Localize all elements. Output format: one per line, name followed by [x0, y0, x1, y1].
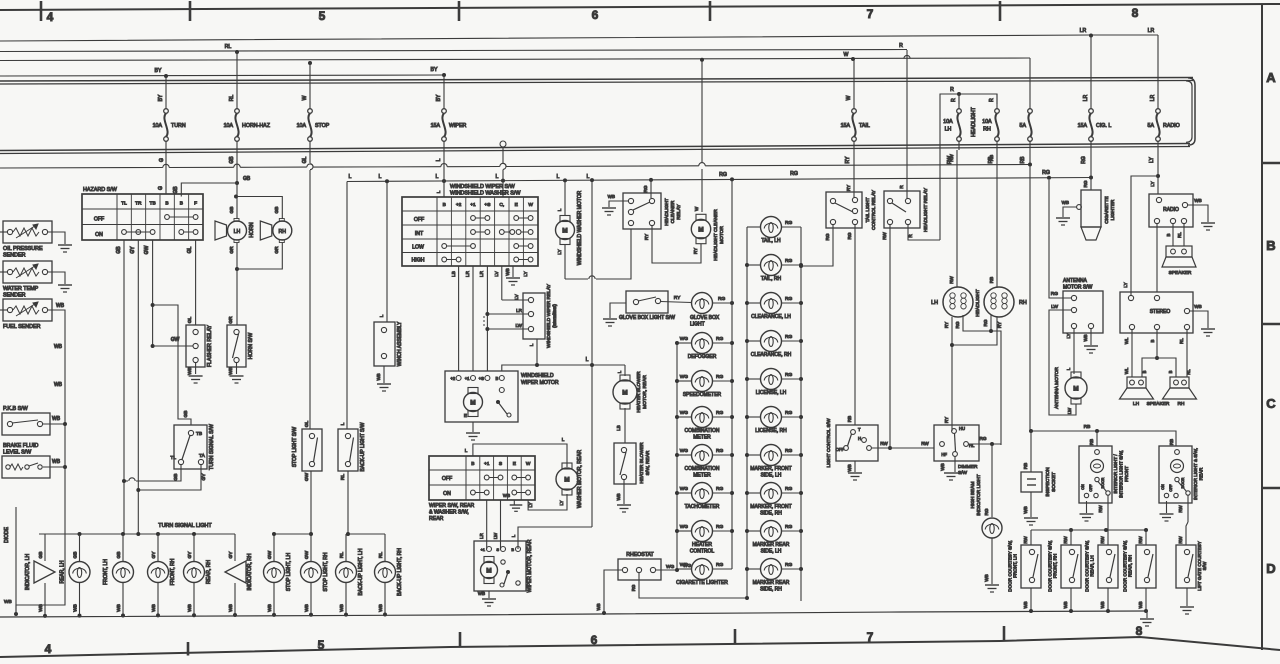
svg-text:GL: GL [187, 316, 193, 323]
svg-text:SIDE, LH: SIDE, LH [761, 473, 782, 479]
lamp MARKER REAR SIDE, LH [747, 521, 801, 555]
svg-text:M: M [698, 227, 703, 234]
svg-text:LR: LR [1148, 28, 1155, 34]
tail lamp rail left [745, 227, 749, 598]
svg-text:RY: RY [944, 322, 949, 328]
svg-text:WB: WB [376, 373, 381, 380]
svg-text:LR: LR [479, 270, 484, 277]
svg-text:STOP: STOP [315, 123, 330, 129]
heater blower switch rear [614, 408, 651, 484]
lamp rear LH [60, 534, 91, 618]
svg-text:B: B [511, 547, 514, 552]
meter lamp COMBINATION METER [677, 445, 732, 479]
svg-text:WINDSHIELD WASHER S/W: WINDSHIELD WASHER S/W [450, 191, 521, 197]
svg-text:RG: RG [1083, 180, 1088, 187]
svg-text:GL: GL [187, 246, 193, 253]
svg-text:M: M [562, 228, 567, 235]
svg-text:10A: 10A [297, 123, 307, 129]
svg-text:RW: RW [1138, 536, 1143, 544]
svg-text:WB: WB [1023, 506, 1028, 513]
svg-text:RY: RY [846, 185, 851, 191]
wire L-RG distribution line [347, 170, 1093, 183]
fuse 15A WIPER [431, 75, 467, 150]
fuse 10A TURN [153, 76, 186, 150]
svg-text:M: M [486, 568, 491, 575]
svg-text:+1: +1 [470, 202, 476, 208]
svg-text:GB: GB [274, 207, 280, 214]
svg-text:WG: WG [680, 410, 689, 416]
svg-text:RH: RH [983, 127, 991, 133]
svg-text:LY: LY [523, 271, 528, 276]
indicator lamp turn LH [25, 534, 55, 618]
horn switch [227, 316, 254, 367]
svg-text:LY: LY [1066, 333, 1071, 338]
svg-text:GW: GW [144, 245, 150, 254]
hazard output wires GB GY GW GL [116, 240, 196, 533]
wire RB distribution to interior lights [1029, 424, 1176, 446]
svg-text:OFF: OFF [414, 217, 424, 223]
bottom WB bus [0, 611, 1146, 617]
back-up light RH [375, 534, 404, 616]
svg-text:HEATER BLOWER: HEATER BLOWER [639, 442, 645, 484]
svg-text:GY: GY [201, 473, 207, 481]
svg-text:LW: LW [493, 532, 498, 539]
svg-text:+1: +1 [465, 376, 470, 381]
frame right border [1262, 5, 1280, 650]
windshield wiper relay [514, 283, 557, 348]
svg-text:RL: RL [229, 95, 235, 102]
svg-text:WG: WG [683, 563, 692, 569]
svg-text:OFF: OFF [94, 217, 104, 223]
svg-text:RY: RY [944, 417, 949, 423]
svg-text:SIDE, LH: SIDE, LH [761, 549, 782, 555]
svg-text:SIDE, RH: SIDE, RH [760, 587, 782, 593]
svg-text:INSPECTION: INSPECTION [1045, 467, 1051, 497]
svg-text:WB: WB [187, 367, 193, 375]
svg-text:15A: 15A [1078, 123, 1088, 129]
svg-text:LR: LR [465, 270, 470, 277]
svg-text:R: R [989, 98, 995, 102]
svg-text:RG: RG [785, 410, 792, 416]
wire GW to turn signal switch TB [151, 303, 191, 425]
svg-text:INTERIOR LIGHT S/W,: INTERIOR LIGHT S/W, [1119, 450, 1124, 498]
wire RB distribution line [0, 163, 1032, 169]
turn signal light bus [39, 523, 235, 536]
svg-text:WB: WB [187, 604, 193, 612]
svg-text:INDICATOR, LH: INDICATOR, LH [25, 554, 31, 591]
svg-text:WB: WB [54, 344, 63, 350]
svg-text:GY: GY [151, 551, 157, 559]
meter lamp CIGARETTE LIGHTER [676, 559, 732, 587]
tail lamp rail right RG [799, 227, 803, 601]
heater blower switch ground [616, 480, 631, 512]
svg-text:ANTENNA: ANTENNA [1063, 278, 1088, 284]
stop light RH [301, 534, 330, 617]
svg-text:WINCH ASSEMBLY: WINCH ASSEMBLY [397, 321, 403, 366]
svg-text:RB: RB [847, 416, 852, 422]
lamp MARKER REAR SIDE, RH [747, 559, 801, 593]
svg-text:W: W [528, 202, 533, 208]
svg-text:W: W [302, 95, 308, 100]
svg-text:S/W, REAR: S/W, REAR [645, 450, 651, 475]
svg-text:TAIL, LH: TAIL, LH [761, 238, 781, 244]
svg-text:COMBINATION: COMBINATION [685, 466, 720, 472]
fuse 5A RADIO [1148, 35, 1180, 176]
wire LY washer rear to table [528, 494, 567, 510]
svg-text:LH: LH [1133, 401, 1140, 407]
stop light switch [292, 150, 322, 481]
svg-text:ON: ON [1161, 484, 1165, 490]
svg-text:WB: WB [1062, 200, 1069, 205]
svg-text:RW: RW [1098, 505, 1103, 513]
svg-text:RADIO: RADIO [1163, 207, 1179, 213]
svg-text:RY: RY [845, 156, 851, 164]
ground for water temp sender [48, 272, 72, 292]
svg-text:TL: TL [170, 455, 176, 461]
svg-text:10A: 10A [153, 123, 163, 129]
wire RY headlights to dimmer [944, 317, 1002, 431]
svg-text:WG: WG [680, 448, 689, 454]
ground for oil pressure sender [48, 232, 72, 252]
lamp MARKER, FRONT SIDE, LH [747, 445, 801, 479]
svg-text:WIPER: WIPER [449, 123, 467, 129]
wire RW headlight relay to light control [882, 225, 892, 450]
bus line 2 net R [0, 43, 907, 54]
wire GB feed to hazard and horns [173, 150, 251, 197]
svg-text:RG: RG [716, 336, 723, 342]
lamp CLEARANCE, LH [747, 293, 801, 321]
cigarette lighter ground [1056, 200, 1077, 225]
light control switch [826, 418, 878, 468]
high beam indicator light [970, 474, 1002, 538]
svg-text:RG: RG [847, 232, 852, 239]
svg-text:RL: RL [225, 44, 232, 50]
svg-text:L: L [496, 174, 499, 180]
svg-text:GY: GY [130, 246, 136, 254]
stereo [1120, 292, 1193, 333]
headlight cleaner motor [691, 58, 725, 261]
svg-text:STEREO: STEREO [1150, 309, 1171, 315]
horn RH [236, 197, 292, 254]
svg-text:+S: +S [479, 376, 484, 381]
svg-text:OFF: OFF [836, 447, 845, 452]
svg-text:RG: RG [716, 524, 723, 530]
svg-text:LIGHT CONTROL S/W: LIGHT CONTROL S/W [826, 418, 832, 468]
svg-text:7: 7 [867, 7, 874, 21]
svg-text:HF: HF [941, 452, 947, 457]
svg-text:RG: RG [716, 486, 723, 492]
svg-text:+2: +2 [456, 202, 462, 208]
svg-text:HEADLIGHT: HEADLIGHT [975, 289, 981, 317]
svg-text:LH: LH [931, 300, 938, 306]
svg-text:TURN SIGNAL LIGHT: TURN SIGNAL LIGHT [158, 523, 212, 529]
svg-text:BY: BY [155, 68, 162, 74]
svg-text:RB: RB [1089, 439, 1094, 445]
svg-text:B: B [1168, 370, 1173, 373]
wire RW interior rear to lift gate switch [1178, 495, 1188, 545]
svg-text:GL: GL [302, 156, 308, 163]
svg-text:WIPER MOTOR: WIPER MOTOR [521, 380, 559, 386]
svg-text:COMBINATION: COMBINATION [685, 428, 720, 434]
svg-text:LW: LW [1067, 407, 1072, 414]
washer motor rear [556, 449, 583, 508]
svg-text:M: M [1073, 386, 1078, 393]
svg-text:RG: RG [980, 436, 987, 441]
svg-text:GLOVE BOX: GLOVE BOX [690, 315, 720, 321]
svg-text:BY: BY [431, 67, 438, 73]
svg-text:RW: RW [1178, 536, 1183, 544]
headlight relay [884, 185, 929, 232]
svg-text:MOTOR: MOTOR [719, 226, 725, 244]
svg-text:GB: GB [116, 246, 122, 254]
svg-text:WB: WB [1194, 198, 1201, 203]
svg-text:WB: WB [54, 382, 63, 388]
svg-text:RW: RW [880, 441, 888, 446]
dimmer switch ground [940, 456, 958, 480]
svg-text:HORN-HAZ: HORN-HAZ [242, 123, 271, 129]
brake fluid level switch [2, 443, 67, 478]
meter lamp TACHOMETER [677, 483, 732, 511]
svg-text:HIGH BEAM: HIGH BEAM [970, 482, 976, 509]
svg-text:WB: WB [73, 604, 79, 612]
fuse 10A HORN-HAZ [224, 52, 271, 150]
frame top border [0, 1, 1280, 21]
svg-text:WB: WB [228, 604, 234, 612]
interior light rear ground [1160, 501, 1174, 521]
svg-text:WB: WB [984, 574, 989, 581]
svg-text:LB: LB [616, 425, 621, 430]
svg-text:TAIL, RH: TAIL, RH [761, 276, 782, 282]
svg-text:CLEARANCE, LH: CLEARANCE, LH [751, 314, 791, 320]
lamp LICENSE, LH [747, 369, 801, 397]
svg-text:L: L [379, 314, 384, 317]
svg-text:MARKER REAR: MARKER REAR [753, 542, 790, 548]
lamp front RH [148, 534, 177, 617]
radio speaker wires [1166, 224, 1184, 246]
svg-text:HEATER: HEATER [692, 542, 712, 548]
svg-text:L: L [436, 174, 439, 180]
svg-text:WIPER S/W, REAR: WIPER S/W, REAR [429, 503, 475, 509]
ground at WB bus right end [1140, 610, 1154, 626]
svg-text:OIL PRESSURE: OIL PRESSURE [3, 246, 43, 252]
svg-text:RW: RW [1063, 536, 1068, 544]
svg-text:INT: INT [415, 231, 424, 237]
svg-text:RG: RG [1042, 170, 1050, 176]
svg-text:RW: RW [1023, 536, 1028, 544]
fuse 10A HEADLIGHT LH [943, 94, 961, 150]
svg-text:RB: RB [989, 155, 994, 161]
door switch LIFT GATE COURTESY S/W [1176, 536, 1207, 591]
svg-text:GY: GY [187, 551, 193, 559]
door switch grounds to bus [1023, 588, 1148, 613]
svg-text:RG: RG [631, 584, 636, 591]
wire RG tail relay to lamp rail [801, 225, 833, 266]
svg-text:WASHER MOTOR, REAR: WASHER MOTOR, REAR [577, 449, 583, 508]
svg-text:L: L [587, 174, 590, 180]
svg-text:REAR, RH: REAR, RH [1128, 555, 1133, 577]
svg-text:RW: RW [1178, 505, 1183, 513]
svg-text:HEADLIGHT: HEADLIGHT [971, 106, 977, 137]
svg-text:M: M [622, 390, 627, 397]
svg-text:DEFOGGER: DEFOGGER [688, 354, 717, 360]
svg-text:+2: +2 [450, 376, 455, 381]
wire G feed to hazard [158, 150, 166, 194]
svg-text:BACK-UP LIGHT S/W: BACK-UP LIGHT S/W [360, 422, 366, 471]
svg-text:TB: TB [196, 431, 202, 437]
lamp rear RH [184, 534, 213, 617]
svg-text:C,: C, [499, 202, 504, 208]
winch assembly [374, 182, 403, 367]
svg-text:WB: WB [1100, 601, 1105, 608]
svg-text:RY: RY [997, 322, 1002, 328]
meter lamp SPEEDOMETER [677, 371, 732, 399]
back-up light switch [338, 422, 366, 480]
svg-text:W: W [694, 206, 699, 211]
svg-text:GR: GR [274, 246, 280, 254]
svg-text:RB: RB [1020, 156, 1026, 164]
wire radio to stereo [1156, 224, 1158, 292]
wire R bus to headlight relay [906, 50, 908, 198]
svg-text:GB: GB [173, 186, 179, 194]
wire L to rear wiper table and washer motor [465, 437, 567, 467]
svg-text:RL: RL [340, 474, 346, 480]
svg-text:MARKER REAR: MARKER REAR [753, 580, 790, 586]
svg-text:6: 6 [592, 8, 599, 22]
svg-text:MARKER, FRONT: MARKER, FRONT [750, 504, 791, 510]
svg-text:SOCKET: SOCKET [1051, 472, 1057, 492]
svg-text:INDICATOR, RH: INDICATOR, RH [247, 553, 253, 590]
svg-text:TURN SIGNAL S/W: TURN SIGNAL S/W [209, 424, 215, 470]
svg-text:+1: +1 [480, 547, 485, 552]
svg-text:RG: RG [716, 410, 723, 416]
svg-text:FRONT, RH: FRONT, RH [170, 558, 176, 585]
svg-text:RH: RH [1178, 401, 1185, 407]
svg-text:HU: HU [959, 426, 965, 431]
wire L rear wiper motor B [518, 527, 592, 549]
bus line 3 net W [0, 52, 1030, 65]
svg-text:OFF: OFF [1169, 484, 1173, 492]
fuse 5A [1020, 58, 1033, 164]
svg-text:WL: WL [1124, 367, 1129, 374]
svg-text:LR: LR [479, 533, 484, 539]
svg-text:SPEAKER: SPEAKER [1169, 270, 1192, 276]
svg-text:RG: RG [1051, 291, 1058, 297]
svg-text:OFF: OFF [1089, 484, 1093, 492]
svg-text:RADIO: RADIO [1163, 123, 1180, 129]
svg-text:GW: GW [304, 472, 310, 481]
svg-text:GB: GB [229, 156, 235, 164]
svg-text:M: M [470, 400, 475, 407]
svg-text:METER: METER [693, 473, 711, 479]
svg-text:FRONT, LH: FRONT, LH [103, 559, 109, 585]
svg-text:LEVEL S/W: LEVEL S/W [3, 450, 32, 456]
svg-text:E: E [464, 413, 467, 418]
svg-text:WB: WB [616, 493, 621, 500]
interior light front ground [1080, 501, 1094, 521]
svg-text:DIMMER: DIMMER [958, 464, 978, 470]
horn switch ground [228, 363, 244, 383]
winch assembly ground [376, 366, 391, 391]
door switch DOOR COURTESY S/W, FRONT, LH [1008, 530, 1042, 592]
svg-text:RG: RG [716, 562, 723, 568]
wire LW antenna switch to motor [1049, 310, 1076, 415]
svg-text:HORN S/W: HORN S/W [248, 333, 254, 360]
svg-text:GB: GB [229, 207, 235, 214]
svg-text:D: D [1266, 561, 1275, 576]
horn ground wires [235, 243, 282, 326]
svg-text:CIGARETTE: CIGARETTE [1104, 196, 1110, 223]
svg-text:MARKER, FRONT: MARKER, FRONT [750, 466, 791, 472]
glove box switch ground [603, 303, 626, 326]
svg-text:REAR, LH: REAR, LH [60, 560, 66, 583]
hazard switch table [82, 187, 203, 240]
svg-text:LR: LR [516, 308, 523, 313]
svg-text:LR: LR [1083, 94, 1089, 101]
svg-text:RY: RY [644, 234, 649, 240]
svg-text:B: B [165, 201, 168, 207]
svg-text:WB: WB [1194, 304, 1201, 309]
headlight cleaner relay [623, 193, 682, 229]
svg-text:LW: LW [1051, 304, 1058, 310]
svg-text:B: B [471, 461, 474, 467]
wiper relay wires [484, 300, 537, 365]
svg-text:8: 8 [1132, 6, 1139, 20]
svg-text:GB: GB [116, 552, 122, 559]
glove box light switch [619, 291, 690, 321]
svg-text:L: L [562, 437, 565, 442]
svg-text:REAR, LH: REAR, LH [1090, 555, 1095, 576]
svg-text:WATER TEMP: WATER TEMP [3, 286, 39, 292]
svg-text:SPEEDOMETER: SPEEDOMETER [683, 392, 722, 398]
svg-text:G: G [159, 158, 165, 162]
svg-text:GW: GW [171, 337, 180, 343]
radio ground [1188, 198, 1215, 230]
svg-text:WINDSHIELD WASHER MOTOR: WINDSHIELD WASHER MOTOR [577, 190, 583, 265]
svg-text:RY: RY [674, 295, 681, 301]
svg-text:RG: RG [790, 171, 798, 177]
svg-text:B: B [496, 376, 499, 381]
svg-text:B: B [1166, 233, 1171, 236]
svg-text:R: R [950, 87, 954, 93]
antenna motor switch [1051, 278, 1103, 333]
svg-text:RG: RG [984, 508, 989, 515]
stop light LH [264, 534, 293, 617]
speaker LH [1120, 377, 1154, 407]
door switch DOOR COURTESY S/W, REAR, LH [1085, 530, 1119, 592]
svg-text:WB: WB [503, 493, 510, 498]
svg-text:BY: BY [158, 94, 164, 101]
wire RY tail fuse to relay [853, 150, 855, 197]
svg-text:REAR, RH: REAR, RH [206, 560, 212, 584]
svg-text:REAR: REAR [429, 516, 444, 522]
svg-text:E: E [515, 202, 518, 208]
svg-text:WB: WB [267, 604, 273, 612]
lift gate switch ground [1180, 588, 1194, 614]
lamp front LH [103, 534, 134, 618]
meter lamp COMBINATION METER [677, 407, 732, 441]
wire RG dimmer to high beam indicator [968, 436, 1001, 517]
svg-text:WB: WB [151, 604, 157, 612]
svg-text:LY: LY [1123, 282, 1128, 287]
wire L wiper motor to heater blower [502, 357, 625, 371]
svg-text:BACK-UP LIGHT, LH: BACK-UP LIGHT, LH [358, 548, 364, 595]
svg-text:RW: RW [1100, 536, 1105, 544]
svg-text:W: W [526, 461, 531, 467]
cleaner relay ground [602, 194, 628, 215]
door courtesy RW bus [1031, 528, 1148, 532]
bus line BY [0, 67, 446, 78]
svg-text:GB: GB [38, 552, 44, 559]
